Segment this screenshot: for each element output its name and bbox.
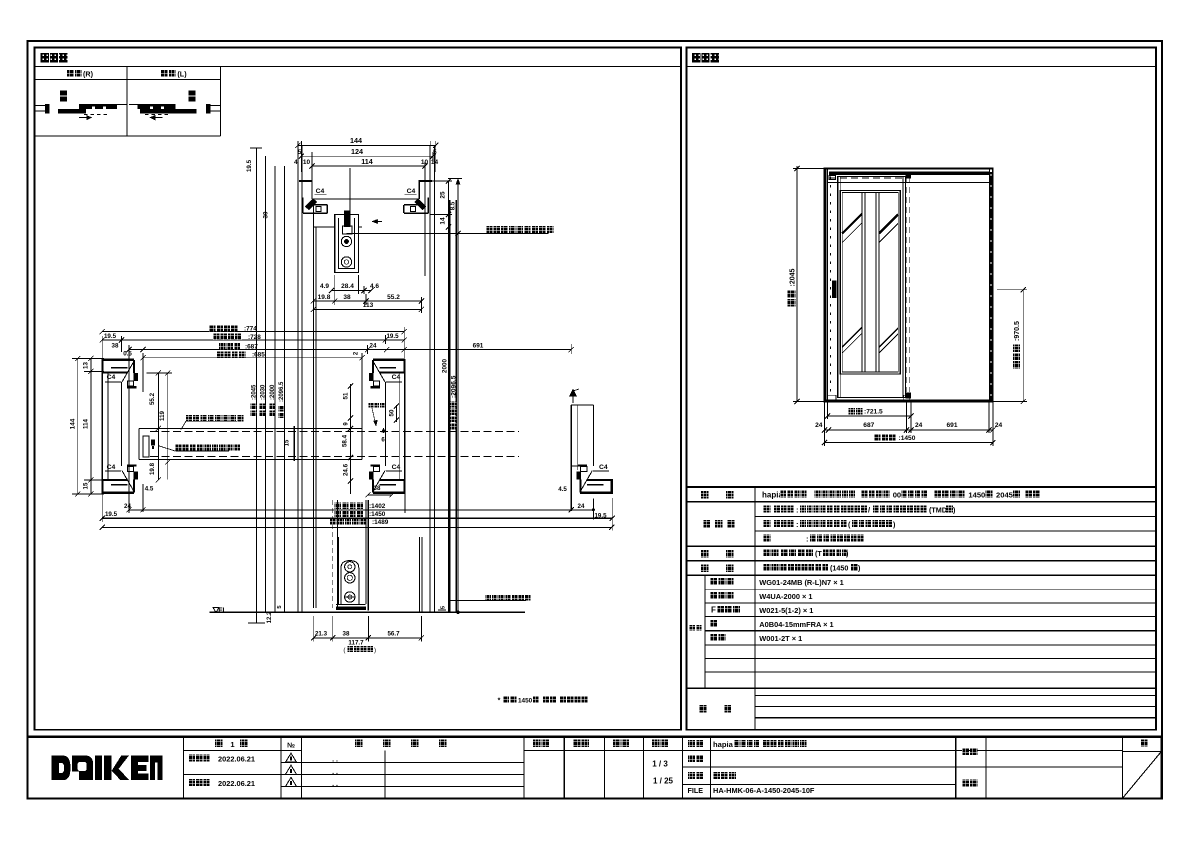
mini plan diagram right-slide	[60, 91, 67, 96]
far-left vertical dims 144 / 13 114 15	[77, 359, 79, 495]
svg-text:C4: C4	[599, 464, 608, 471]
svg-text:W021-5(1-2) × 1: W021-5(1-2) × 1	[759, 606, 813, 615]
svg-text:): )	[374, 647, 376, 654]
svg-text:58.4: 58.4	[342, 434, 349, 447]
svg-text:2022.06.21: 2022.06.21	[218, 779, 255, 788]
left panel frame	[35, 48, 682, 730]
rail leader line 吊車レール:別途部品	[347, 232, 549, 234]
svg-text:(TMD: (TMD	[929, 505, 947, 514]
left jamb long edges	[101, 359, 103, 494]
svg-text:4.6: 4.6	[370, 283, 379, 290]
svg-text:*: *	[498, 697, 501, 704]
top detail: dim 114	[312, 165, 425, 167]
svg-text:2022.06.21: 2022.06.21	[218, 755, 255, 764]
svg-text:WG01-24MB (R-L)N7 × 1: WG01-24MB (R-L)N7 × 1	[759, 578, 843, 587]
small arrow near hanger	[372, 221, 382, 223]
svg-text:(L): (L)	[177, 69, 187, 78]
guide base bar	[336, 606, 366, 609]
svg-text:24: 24	[578, 503, 585, 510]
glass panel frame	[840, 191, 900, 374]
value 把手	[764, 549, 779, 556]
label 開放時位置を示す	[186, 415, 243, 421]
col2 第1版 rows	[184, 749, 302, 751]
FL floor line	[209, 611, 525, 613]
header 左引(L)	[161, 70, 176, 77]
top detail: left head jamb profile	[299, 180, 313, 182]
spec col dividers	[754, 487, 756, 730]
top dim line 728 + 19.5s	[102, 339, 404, 341]
small table: cell borders	[35, 79, 221, 81]
svg-text:4.5: 4.5	[145, 486, 154, 493]
svg-text::1450: :1450	[369, 511, 386, 518]
bottom frame line	[825, 399, 993, 401]
right wall double line w/ labels	[449, 200, 451, 612]
svg-text:24: 24	[370, 343, 377, 350]
top detail: dim 144	[298, 144, 436, 146]
rail centerline	[349, 168, 351, 222]
svg-text:. .: . .	[332, 757, 338, 764]
right jamb (plan)	[580, 492, 612, 494]
DAIKEN logo	[52, 756, 163, 781]
labels 件名 / 係員	[962, 748, 977, 755]
svg-text:38: 38	[343, 294, 351, 301]
svg-text:(1450: (1450	[830, 564, 848, 573]
door frame outer	[825, 169, 993, 402]
label 金物	[701, 564, 709, 572]
section-view title 断面図	[41, 53, 68, 63]
corner blocks	[829, 176, 836, 180]
svg-text:50: 50	[389, 409, 396, 416]
right frame strip	[988, 169, 990, 402]
top dim line 774	[102, 331, 404, 333]
dim line 685	[143, 357, 362, 359]
middle post bottom piece	[373, 492, 405, 494]
svg-text::687: :687	[245, 344, 258, 351]
long vertical dim line 3	[274, 166, 276, 612]
value 仕上げ1	[764, 506, 771, 513]
svg-text:15: 15	[82, 482, 89, 489]
svg-text:. .: . .	[332, 769, 338, 776]
col4 改訂履歴 header	[355, 740, 362, 747]
svg-text:144: 144	[70, 418, 77, 429]
svg-text:144: 144	[350, 136, 362, 145]
top detail: extension lines	[297, 141, 299, 172]
svg-text:691: 691	[946, 422, 957, 429]
right side projection lines	[424, 166, 426, 276]
svg-text:119: 119	[159, 410, 166, 421]
label 把手	[701, 550, 709, 558]
FL mark	[213, 608, 219, 613]
front dims 24/687/24/691/24	[825, 429, 993, 431]
dim line 687 + 24 + 691	[129, 349, 571, 351]
wall segment crossing door	[293, 426, 295, 461]
svg-text:28.4: 28.4	[341, 283, 354, 290]
svg-text:1450: 1450	[518, 697, 533, 704]
front dim 枠外幅1450	[825, 442, 993, 444]
bottom guide unit verticals	[332, 500, 334, 608]
svg-text:19.8: 19.8	[149, 462, 156, 475]
svg-text:10: 10	[303, 159, 311, 166]
svg-text:19.5: 19.5	[386, 333, 399, 340]
svg-text:21.3: 21.3	[315, 630, 328, 637]
pocket post dashed	[906, 177, 908, 392]
label 仕上げ	[703, 520, 711, 528]
svg-text:114: 114	[82, 418, 89, 429]
front dim 製品高2045	[796, 166, 798, 402]
svg-text:24: 24	[995, 422, 1003, 429]
mullions	[861, 193, 863, 372]
glass diagonals lower right pane	[879, 328, 898, 347]
svg-text:19.8: 19.8	[318, 294, 331, 301]
hanging-side arrow in bay	[572, 391, 574, 403]
svg-text:25: 25	[440, 191, 447, 199]
svg-text:24.6: 24.6	[343, 463, 350, 476]
svg-text::1489: :1489	[372, 519, 389, 526]
right panel frame	[687, 48, 1157, 730]
post vertical dims 51 50 9 58.4 24.6	[350, 384, 352, 494]
vertical dims 55.2 / 119 near door left	[157, 373, 159, 480]
svg-text::: :	[806, 534, 809, 543]
top detail bottom dim 113	[313, 308, 421, 310]
svg-text:114: 114	[361, 157, 373, 166]
svg-text:4.9: 4.9	[320, 283, 329, 290]
front-view title 正面図	[692, 53, 719, 63]
svg-text::2096.5: :2096.5	[450, 375, 457, 398]
svg-text:24: 24	[124, 503, 131, 510]
value 金物	[764, 564, 787, 571]
svg-text:56.7: 56.7	[387, 630, 400, 637]
bottom dim 1450 (thick)	[102, 517, 612, 519]
door leaf	[838, 176, 906, 397]
long vertical dim line 4	[283, 166, 285, 612]
svg-text::2030: :2030	[260, 384, 266, 400]
mini plan diagram left-slide	[189, 91, 196, 96]
label 品番	[690, 625, 702, 630]
svg-text::2045: :2045	[789, 268, 796, 286]
svg-text:13: 13	[82, 362, 89, 369]
svg-text:19.5: 19.5	[105, 511, 118, 518]
svg-text:55.2: 55.2	[387, 294, 400, 301]
svg-text:FILE: FILE	[688, 786, 704, 795]
svg-text:8.5: 8.5	[450, 201, 457, 210]
svg-text::1450: :1450	[899, 435, 916, 442]
title block frame	[28, 737, 1162, 799]
left jamb profile (plan) top piece	[102, 359, 134, 361]
svg-text::970.5: :970.5	[1014, 321, 1021, 341]
top detail: dim 124	[301, 155, 432, 157]
svg-text:. .: . .	[332, 781, 338, 788]
svg-text::2000: :2000	[270, 384, 276, 400]
front extension lines	[824, 402, 826, 447]
label 引戸用木口キャップ	[175, 444, 240, 450]
svg-text::774: :774	[244, 326, 257, 333]
svg-text:15: 15	[285, 439, 291, 446]
svg-text:4.5: 4.5	[558, 486, 567, 493]
col5-8 headers	[524, 749, 644, 751]
svg-text:C4: C4	[316, 188, 325, 195]
door leaf top edge	[314, 226, 335, 228]
svg-text:24: 24	[915, 422, 923, 429]
value 仕上げ2	[764, 520, 771, 527]
head rail black band	[829, 171, 989, 175]
svg-text:113: 113	[363, 302, 374, 309]
svg-text:12.2: 12.2	[267, 611, 273, 623]
glass diagonals upper right pane	[879, 214, 898, 233]
svg-text:124: 124	[351, 147, 363, 156]
svg-text:№: №	[287, 742, 295, 750]
svg-text:1 / 3: 1 / 3	[652, 760, 668, 769]
図名 value 三面図	[713, 772, 736, 779]
svg-text:(T: (T	[815, 549, 822, 558]
front dim 間口721.5	[828, 415, 912, 417]
right pocket structure	[570, 405, 572, 511]
left frame inner line	[826, 169, 828, 402]
svg-text::728: :728	[248, 334, 261, 341]
svg-text:19.5: 19.5	[246, 159, 253, 172]
top rail dashed	[829, 177, 909, 179]
front dim 引手高970.5	[1022, 290, 1024, 402]
dim 38 under post	[368, 494, 392, 496]
title block column lines	[183, 737, 185, 799]
svg-text:W4UA-2000 × 1: W4UA-2000 × 1	[759, 592, 812, 601]
door face lines	[313, 199, 315, 608]
svg-text::: :	[796, 505, 799, 514]
right side verticals bottom detail	[418, 537, 420, 613]
svg-text:1 / 25: 1 / 25	[653, 777, 674, 786]
door leaf (plan)	[139, 427, 362, 429]
svg-text::1402: :1402	[369, 503, 386, 510]
value 仕上げ3	[764, 535, 771, 542]
svg-text:38: 38	[112, 343, 119, 350]
spec table outer	[687, 486, 1156, 488]
top detail bottom dims 4.9/28.4/4.6	[332, 289, 372, 291]
header 右引(R)	[67, 70, 82, 77]
svg-text:19.5: 19.5	[104, 333, 117, 340]
dot at wall base	[457, 611, 460, 614]
guide body with rollers	[341, 561, 359, 605]
svg-text:51: 51	[343, 392, 350, 399]
svg-text:14: 14	[440, 217, 447, 225]
svg-text:1450: 1450	[968, 491, 985, 500]
spec row dividers	[687, 501, 1156, 503]
head board underside	[314, 198, 420, 200]
label 備考	[699, 705, 707, 713]
label 型式	[701, 491, 709, 499]
name rows	[644, 749, 1123, 751]
bottom dim 1489	[102, 526, 611, 528]
svg-text:117.7: 117.7	[348, 640, 364, 647]
svg-text:FL: FL	[218, 607, 227, 614]
svg-text:2000: 2000	[442, 358, 449, 373]
middle post long edges	[404, 359, 406, 494]
svg-text:00: 00	[893, 491, 901, 500]
svg-text:2045: 2045	[996, 491, 1014, 500]
svg-text:691: 691	[473, 343, 484, 350]
svg-text:0.5: 0.5	[123, 351, 132, 358]
svg-text::2045: :2045	[251, 384, 257, 400]
top detail right-side vertical dims (continue as height dim lines)	[448, 181, 450, 612]
hanger roller unit	[335, 214, 359, 272]
handle	[832, 280, 836, 298]
label フラットレール	[486, 594, 531, 600]
glass diagonals lower left pane	[842, 327, 862, 347]
svg-text:38: 38	[374, 485, 381, 492]
svg-text:(R): (R)	[83, 69, 94, 78]
svg-text::2096.5: :2096.5	[279, 381, 285, 402]
svg-text:24: 24	[815, 422, 823, 429]
svg-text:F: F	[711, 605, 716, 614]
extension verticals bottom left	[101, 336, 103, 522]
floor step left	[256, 612, 258, 623]
svg-text:30: 30	[263, 211, 270, 218]
svg-text:A0B04-15mmFRA × 1: A0B04-15mmFRA × 1	[759, 620, 833, 629]
svg-text::721.5: :721.5	[864, 409, 883, 416]
small label スペーサ	[369, 403, 385, 408]
left wall double line	[297, 145, 299, 612]
sub labels	[711, 578, 734, 585]
svg-text:hapia: hapia	[713, 740, 734, 749]
lock keep block	[151, 440, 155, 446]
glass diagonals upper left pane	[842, 214, 862, 234]
long vertical dim line 2	[265, 156, 267, 612]
left jamb profile bottom piece	[102, 492, 134, 494]
bottom detail dims 21.3/38/56.7	[314, 637, 422, 639]
svg-text:W001-2T × 1: W001-2T × 1	[759, 634, 802, 643]
top detail bottom dims 19.8/38/55.2	[313, 300, 421, 302]
labels 名称/品番/図名/FILE	[688, 740, 703, 747]
svg-text:55.2: 55.2	[149, 392, 156, 405]
middle post (plan) top piece	[373, 359, 405, 361]
svg-text:HA-HMK-06-A-1450-2045-10F: HA-HMK-06-A-1450-2045-10F	[713, 786, 815, 795]
svg-text::685: :685	[252, 352, 265, 359]
long vertical dim line 製品高2045	[256, 148, 258, 612]
bottom dim 1402	[129, 509, 593, 511]
svg-text:C4: C4	[407, 188, 416, 195]
svg-text:687: 687	[863, 422, 874, 429]
svg-text::: :	[796, 520, 799, 529]
top detail: right head jamb profile	[419, 180, 433, 182]
page cell	[1122, 750, 1161, 752]
svg-text:38: 38	[343, 630, 350, 637]
